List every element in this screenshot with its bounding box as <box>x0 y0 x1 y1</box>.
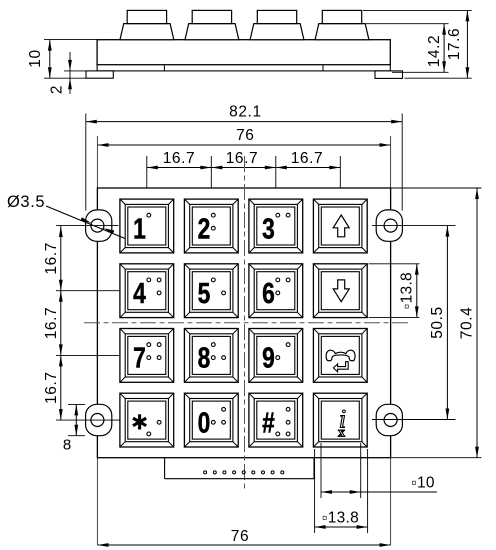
dimension 82.1 (overall width) <box>85 114 87 211</box>
sq10 extension lines <box>320 443 322 498</box>
key up-arrow <box>313 199 367 253</box>
svg-text:1: 1 <box>133 214 146 245</box>
row1 left extension line <box>56 225 119 227</box>
key 1 <box>120 199 174 253</box>
key # <box>249 393 303 447</box>
dimension 50.5 <box>446 226 448 420</box>
hole vertical centerline right <box>390 136 392 545</box>
sq13.8 right extension lines <box>369 263 420 265</box>
key 9 <box>249 329 303 383</box>
dimension 16.7 left segments <box>60 226 62 420</box>
bottom-right mounting lug <box>376 404 402 435</box>
svg-text:4: 4 <box>133 279 146 310</box>
side view button 2 <box>185 24 239 40</box>
svg-text:x: x <box>338 426 345 441</box>
svg-text:#: # <box>262 408 275 439</box>
top-left mounting lug <box>86 210 112 241</box>
connector pins <box>204 471 207 474</box>
svg-text:50.5: 50.5 <box>429 306 446 339</box>
svg-text:14.2: 14.2 <box>426 35 443 68</box>
mounting hole bottom-right <box>384 414 397 427</box>
svg-text:16.7: 16.7 <box>291 150 324 167</box>
key 5 <box>184 264 238 318</box>
svg-text:82.1: 82.1 <box>229 103 262 120</box>
key 4 <box>120 264 174 318</box>
svg-text:10: 10 <box>27 49 44 67</box>
dimension Ø3.5 leader <box>46 206 125 239</box>
svg-text:16.7: 16.7 <box>163 150 196 167</box>
row2 left extension line <box>56 290 120 292</box>
top-right mounting lug <box>376 210 402 241</box>
dimension 2 (tab thickness) <box>64 70 86 72</box>
row4 left extension line <box>56 419 121 421</box>
hole top-right centerline <box>372 225 456 227</box>
plate bottom edge extension right <box>391 457 482 459</box>
dimension 10 (side height) <box>44 39 97 41</box>
plate top edge extension right <box>391 187 482 189</box>
svg-text:6: 6 <box>262 279 275 310</box>
side view right mounting tab <box>375 71 403 79</box>
hole bottom-right centerline <box>372 419 456 421</box>
dimension 16.7 top segments <box>146 156 148 199</box>
key down-arrow <box>313 264 367 318</box>
mounting hole top-right <box>384 219 397 232</box>
horizontal centerline <box>84 322 408 324</box>
key asterisk <box>120 393 174 447</box>
svg-text:5: 5 <box>198 279 211 310</box>
svg-text:76: 76 <box>236 127 254 144</box>
svg-text:3: 3 <box>262 214 275 245</box>
key info <box>313 393 367 447</box>
svg-text:2: 2 <box>49 85 66 94</box>
mounting hole top-left <box>91 219 104 232</box>
connector outline <box>164 458 166 479</box>
dimension 14.2 <box>366 23 449 25</box>
bottom-left mounting lug <box>86 404 112 435</box>
dimension 8 (lug height) <box>68 403 85 405</box>
svg-text:Ø3.5: Ø3.5 <box>7 193 45 211</box>
side view button 3 <box>250 24 304 40</box>
side view button 4 <box>315 24 369 40</box>
svg-text:▫13.8: ▫13.8 <box>398 272 415 309</box>
svg-text:▫10: ▫10 <box>411 475 435 492</box>
hole vertical centerline left <box>96 136 98 545</box>
svg-text:▫13.8: ▫13.8 <box>322 509 359 526</box>
dimension sq10 <box>321 491 437 493</box>
svg-text:16.7: 16.7 <box>43 371 60 404</box>
key 3 <box>249 199 303 253</box>
sq13.8 extension lines <box>314 449 316 533</box>
svg-text:8: 8 <box>198 343 211 374</box>
svg-text:76: 76 <box>231 528 249 545</box>
key 7 <box>120 329 174 383</box>
dimension 70.4 <box>476 188 478 458</box>
key 8 <box>184 329 238 383</box>
key 0 <box>184 393 238 447</box>
dimension 76 bottom <box>98 544 391 546</box>
dimension 17.6 <box>363 9 472 11</box>
row3 left extension line <box>56 354 120 356</box>
svg-text:17.6: 17.6 <box>446 28 463 61</box>
dimension sq13.8 right <box>416 264 418 318</box>
side view button 1 <box>120 24 174 40</box>
dimension 76 (hole spacing horizontal) <box>98 144 391 146</box>
dimension sq13.8 bottom <box>315 526 368 528</box>
side view body plate <box>97 40 390 65</box>
key phone/enter <box>313 329 367 383</box>
side view left mounting tab <box>86 71 113 78</box>
svg-text:2: 2 <box>198 214 211 245</box>
svg-text:16.7: 16.7 <box>226 150 259 167</box>
svg-text:9: 9 <box>262 343 275 374</box>
key 2 <box>184 199 238 253</box>
svg-text:7: 7 <box>133 343 146 374</box>
svg-text:8: 8 <box>63 437 72 454</box>
svg-text:16.7: 16.7 <box>43 242 60 275</box>
key 6 <box>249 264 303 318</box>
svg-text:0: 0 <box>198 408 211 439</box>
mounting hole bottom-left <box>91 414 104 427</box>
keypad plate outline <box>97 188 390 458</box>
svg-text:16.7: 16.7 <box>43 307 60 340</box>
side view bottom strip <box>97 65 390 71</box>
svg-text:70.4: 70.4 <box>459 307 476 340</box>
vertical centerline <box>244 156 246 490</box>
